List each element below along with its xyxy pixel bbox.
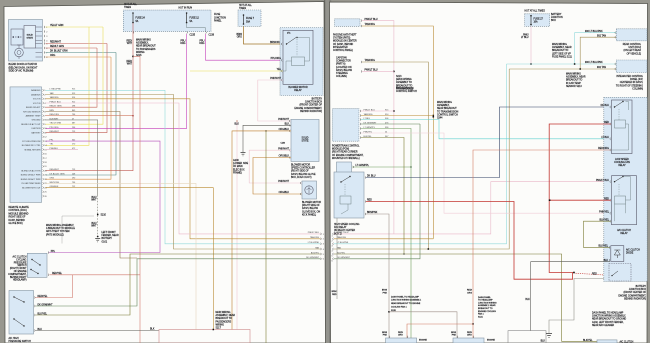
wire PNK/LT BLU fuse drop [530,26,532,64]
node junction tan row4 [428,248,430,250]
wire ORG vertical [46,57,112,179]
svg-text:PNK: PNK [452,335,457,337]
svg-text:ASSEMBLY,: ASSEMBLY, [136,42,149,45]
wire LT BLU/PNK right row [334,64,507,244]
svg-text:CYCLING PRES SW: CYCLING PRES SW [22,141,41,143]
svg-text:COOLING FAN 1: COOLING FAN 1 [391,306,408,309]
svg-text:BATTERY: BATTERY [312,98,323,101]
svg-text:WIRING: WIRING [136,52,145,54]
svg-text:BLOWER MOTOR: BLOWER MOTOR [302,202,321,204]
svg-text:ENGINE: ENGINE [487,340,495,342]
svg-text:ELEC BOX: ELEC BOX [233,169,245,171]
pcm relay contact [612,271,618,276]
wire stub below hs relay [336,218,338,299]
svg-text:LEFT SIDE OF I/P: LEFT SIDE OF I/P [552,53,571,55]
svg-text:TO RIGHT OF STEERING: TO RIGHT OF STEERING [616,85,643,87]
wire BRN/ORG from fuse 7 [244,26,284,44]
svg-text:CONTROL SWITCH: CONTROL SWITCH [396,91,417,93]
svg-text:PNK/LT BLU: PNK/LT BLU [596,180,609,182]
wire PPL/ORG to blower relay [206,34,284,60]
svg-text:BRN/: BRN/ [382,332,387,334]
svg-text:COLUMN): COLUMN) [336,76,347,78]
svg-text:DASH PANEL: DASH PANEL [478,296,492,299]
svg-text:AMBIENT TEMP: AMBIENT TEMP [26,114,42,117]
hs relay coil [340,196,351,204]
svg-text:BEHIND RIGHT: BEHIND RIGHT [10,277,27,279]
wire TAN capstan vertical [362,62,428,249]
node junction S213 tan [579,68,581,70]
wire PNK/LT BLU row4 [46,103,321,234]
svg-text:FUSE 27: FUSE 27 [534,18,544,20]
svg-text:DASH, BELOW GLOVE: DASH, BELOW GLOVE [291,173,316,176]
svg-text:ORG: ORG [237,37,242,39]
svg-text:YEL/LT GRN: YEL/LT GRN [50,123,62,125]
wire TAN right row [334,69,509,249]
svg-text:BLEND DR ACT PWR: BLEND DR ACT PWR [21,174,41,177]
svg-text:ORG: ORG [398,335,403,337]
svg-text:BLEND DR ACT PWR: BLEND DR ACT PWR [21,178,41,181]
wire RED/ORG branch fan1 [407,324,473,338]
wire BRN/PNK to fans [366,214,389,338]
blower motor relay dashed box [280,28,323,96]
svg-text:IN CAR TEMP: IN CAR TEMP [566,82,581,85]
fuse 24 [132,13,134,24]
svg-text:BRN/: BRN/ [332,291,337,293]
svg-text:BLK: BLK [604,260,609,262]
svg-text:TO TRANSMISSION: TO TRANSMISSION [437,110,459,113]
wire PNK/WHT drop to bottom connector [236,121,238,330]
wire BLK/WHT ground row8 [46,120,98,195]
wire DK BLU/LT GRN vertical [46,53,117,176]
node junction blk/yel row5 [403,253,404,254]
svg-text:HOT AT ALL: HOT AT ALL [124,3,138,6]
svg-text:JUNCTION: JUNCTION [551,17,563,19]
blower motor relay body [283,30,313,84]
ground G101 symbol [95,239,100,242]
svg-text:BLK: BLK [150,329,155,331]
wire LT BLU/PNK row1 [46,90,321,244]
wire BLK from diode [531,262,610,331]
svg-text:BRN/: BRN/ [451,332,456,334]
svg-text:BLOWER MTR OUT: BLOWER MTR OUT [22,187,41,189]
diode symbol [614,250,620,255]
svg-text:RELAY: RELAY [618,164,626,167]
svg-text:BLK/YEL: BLK/YEL [599,246,609,248]
svg-text:LEFT FRONT: LEFT FRONT [102,232,117,234]
svg-text:C240: C240 [280,143,285,145]
svg-text:DK BLU: DK BLU [601,105,610,107]
svg-text:S213: S213 [396,76,402,78]
relay switch contact [287,38,297,45]
svg-text:248: 248 [72,173,75,175]
svg-text:VOLT IN: VOLT IN [33,99,41,101]
svg-text:NEAR BREAKOUT: NEAR BREAKOUT [437,107,457,110]
svg-text:PNK: PNK [383,293,388,295]
svg-text:(RIGHT SIDE OF: (RIGHT SIDE OF [291,171,309,173]
svg-text:RIGHT SIDE OF: RIGHT SIDE OF [9,217,27,219]
wire LT GRN/PPL branch connector [352,166,411,168]
svg-text:900 LT BLU/PNK: 900 LT BLU/PNK [585,62,603,64]
node junction red/org row7 [132,115,133,116]
svg-text:BOX 1): BOX 1) [334,233,342,235]
wire ORG from actuator [46,56,112,58]
wire DK GRN/WHT from hp switch [36,259,321,306]
svg-text:WHT: WHT [91,226,97,228]
svg-text:KICK PANEL): KICK PANEL) [302,213,316,216]
wire RED/WHT vertical [46,44,108,133]
svg-text:PASSIVE ANTI-THEFT: PASSIVE ANTI-THEFT [333,34,357,37]
wire PNK/LT BLU vertical right page [362,21,394,234]
wire BRN/PNK branch fan2 [389,312,457,338]
svg-text:STATE: STATE [301,140,309,143]
svg-text:A/C CLUTCH: A/C CLUTCH [617,229,631,232]
wire TAN/ORG vertical right page [362,26,433,239]
svg-text:IN CAR TEMP SENS: IN CAR TEMP SENS [22,182,41,185]
wire PNK/YEL pcm to clutch relay [361,133,612,213]
svg-text:DASH PANEL TO HEADLAMP: DASH PANEL TO HEADLAMP [391,295,420,298]
svg-text:ANTI-THEFT SYSTEM: ANTI-THEFT SYSTEM [46,230,70,233]
wire YEL/LT GRN vertical b [46,27,104,124]
wire ORG/BLK row24 [46,188,214,330]
wire RED dashed to pcm relay [576,273,605,275]
svg-text:BLK: BLK [525,299,530,301]
svg-text:STEERING: STEERING [336,73,348,75]
svg-text:PRESSURE: PRESSURE [14,262,27,264]
svg-text:BREAKOUT TO: BREAKOUT TO [396,84,413,87]
clutch relay contact [615,177,624,182]
svg-text:(RIGHT FRONT: (RIGHT FRONT [10,268,27,270]
svg-text:MODULE (BEHIND: MODULE (BEHIND [9,213,29,215]
bottom connector box [159,330,250,343]
svg-text:296: 296 [72,127,75,129]
svg-text:290: 290 [72,178,75,180]
svg-text:CYCLING: CYCLING [16,259,27,261]
svg-text:PANEL: PANEL [214,20,222,23]
svg-text:A/C HIGH: A/C HIGH [9,337,20,340]
svg-text:STATE: STATE [27,36,34,39]
fuse12 internal link [187,23,206,31]
blower motor symbol [305,186,313,194]
svg-text:C236: C236 [209,34,215,36]
node junction org/blk [265,130,266,131]
wire RED/ORG fan2 drop [472,324,474,338]
node junction S120 [388,311,390,313]
wire YEL/LT GRN vertical a [46,27,90,145]
svg-text:PNK/WHT: PNK/WHT [278,119,289,121]
PATS module box [335,19,361,27]
svg-text:RED/YEL: RED/YEL [52,273,63,275]
svg-text:TO HEADLAMP: TO HEADLAMP [478,299,493,302]
svg-text:RED/: RED/ [467,332,472,334]
wire DK GRN/WHT pcm link [361,123,420,125]
svg-text:ORG: ORG [50,55,55,57]
wire BLK/YEL pcm down [361,138,404,255]
svg-text:BLOWER MOTOR: BLOWER MOTOR [291,165,310,167]
svg-text:MAIN WIRING: MAIN WIRING [437,101,452,104]
svg-text:687: 687 [72,123,75,125]
node junction S216 [132,56,134,58]
svg-text:G200: G200 [233,160,239,162]
wire TAN/ORG pcm link [361,115,433,117]
hs relay contact [341,177,350,183]
svg-text:BREAKOUT TO: BREAKOUT TO [216,317,233,320]
right page [330,2,648,343]
node junction pnk S213 [393,71,395,73]
svg-text:TIMES: TIMES [239,8,247,10]
ground G200 symbol [241,153,246,156]
ac clutch diode box [611,246,624,262]
remote climate control module box [10,87,42,202]
module pins [42,89,45,91]
ac high pressure switch box [9,291,34,335]
wire RED/ORG row7 stub [46,115,134,117]
svg-text:ASSEMBLY, NEAR: ASSEMBLY, NEAR [552,46,572,49]
hp switch contact 1 [14,297,24,302]
svg-text:LT BLU: LT BLU [521,37,529,39]
svg-text:900 LT BLU/PNK: 900 LT BLU/PNK [585,31,603,33]
svg-text:DATA BUS: DATA BUS [31,93,41,96]
svg-text:BEHIND RADIATOR): BEHIND RADIATOR) [300,110,322,113]
wire BLK/YEL clutch loop [584,221,611,247]
svg-text:(PATS MODULE): (PATS MODULE) [46,233,64,236]
wire PNK/LT BLU right row [334,182,612,234]
svg-text:RED/WHT: RED/WHT [50,42,61,44]
wire RED hs relay [366,202,573,280]
svg-text:(LOCATED ON: (LOCATED ON [336,66,352,69]
node junction pnk/wht [236,120,237,121]
ground G102 symbol [546,334,552,338]
ac cycling pressure switch box [27,253,47,277]
svg-text:BOX: BOX [551,20,556,22]
svg-text:(PART A): (PART A) [336,63,346,66]
svg-text:ORG: ORG [467,293,472,295]
svg-text:JUNCTION BOX: JUNCTION BOX [305,102,323,104]
svg-text:BLEND DOOR ACTUATOR: BLEND DOOR ACTUATOR [9,63,38,66]
svg-text:RED/: RED/ [398,332,403,334]
svg-text:FUSE PANEL S211: FUSE PANEL S211 [552,55,573,58]
svg-text:LT GRN/PPL: LT GRN/PPL [356,165,370,167]
wire PNK/WHT relay to controller [258,80,291,121]
svg-text:RED/WHT: RED/WHT [50,169,60,171]
svg-text:10A: 10A [534,21,539,24]
svg-text:BLK/YEL: BLK/YEL [311,252,320,254]
svg-text:ASSEMBLY, NEAR: ASSEMBLY, NEAR [216,314,236,317]
svg-text:SIGNAL RETURN: SIGNAL RETURN [24,148,41,151]
wire WHT/ORG row23 [46,183,197,329]
svg-text:ENGINE COMPARTMENT,: ENGINE COMPARTMENT, [618,294,646,297]
svg-text:JUNCTION: JUNCTION [214,17,226,19]
svg-text:ORG: ORG [180,43,185,45]
svg-text:MAIN WIRING: MAIN WIRING [216,311,231,314]
wire PNK/WHT to blower motor [249,150,302,183]
svg-text:BLOWER MOTOR: BLOWER MOTOR [288,87,308,89]
svg-text:ENGINE COMPARTMENT,: ENGINE COMPARTMENT, [294,107,322,110]
svg-text:GROUND: GROUND [32,120,41,122]
fuse 27 [530,15,532,25]
svg-text:ENGINE COOLING: ENGINE COOLING [478,311,496,313]
svg-text:RED/LT GRN: RED/LT GRN [50,46,64,48]
high speed cooling fan relay box [334,172,364,218]
wire BLK controller ground [243,125,291,152]
svg-text:HOT IN RUN: HOT IN RUN [179,8,193,10]
svg-text:JUNCTION WIRING ASSEMBLY,: JUNCTION WIRING ASSEMBLY, [391,299,422,302]
PCM connector 2 [337,162,352,176]
actuator pin stubs from solid state block [36,27,43,57]
svg-text:WHT: WHT [91,200,97,202]
svg-text:NEAR BREAKOUT: NEAR BREAKOUT [136,45,156,48]
svg-text:JUNCTION WIRING ASSEMBLY,: JUNCTION WIRING ASSEMBLY, [592,315,626,318]
svg-text:BLEND DR ACT RTN: BLEND DR ACT RTN [21,169,41,172]
svg-text:NEAR BREAKOUT TO GROUND: NEAR BREAKOUT TO GROUND [592,318,627,321]
svg-text:BATTERY: BATTERY [31,131,41,134]
wire DK GRN/WHT right row [334,124,420,259]
wire YEL/LT GRN from actuator [46,26,104,28]
svg-text:BLK: BLK [235,124,240,126]
svg-text:COLUMN): COLUMN) [632,88,643,90]
svg-text:TAN/ORG: TAN/ORG [310,236,319,239]
svg-text:ORG: ORG [50,178,55,180]
svg-text:30A: 30A [246,20,251,23]
svg-text:PPL/ORG: PPL/ORG [271,58,282,60]
node junction S217 L [213,329,215,331]
svg-text:LT BLU/PNK: LT BLU/PNK [308,242,320,244]
svg-text:TRANSMISSION: TRANSMISSION [396,87,414,90]
svg-text:BREAKOUT TO: BREAKOUT TO [566,79,583,82]
svg-text:(ON LEFT REAR: (ON LEFT REAR [624,49,642,52]
svg-text:BLEND DR ACT: BLEND DR ACT [26,106,41,109]
svg-text:YEL: YEL [277,69,282,71]
svg-text:S216: S216 [136,55,142,57]
wire TAN/ORG right row [334,238,433,240]
svg-text:NEAR BREAKOUT TO ENGINE: NEAR BREAKOUT TO ENGINE [391,302,421,305]
bottom connector box right [508,331,546,343]
svg-text:RED: RED [592,273,597,275]
svg-text:(MAIN WIRING: (MAIN WIRING [396,78,412,81]
svg-text:ORG/BLK: ORG/BLK [279,192,290,194]
wire PNK/BLK row15 stub [46,149,79,151]
svg-text:MODULE (PCM): MODULE (PCM) [332,149,349,151]
wire BLK/YEL from hp switch [36,254,321,315]
fuse box right page [525,14,550,26]
wire DK BLU/LT GRN from actuator [46,52,117,54]
svg-text:FUSE 12: FUSE 12 [190,18,200,20]
svg-text:UNIT (RCU): UNIT (RCU) [629,47,642,49]
svg-text:DIODE: DIODE [626,253,634,255]
svg-text:5A: 5A [136,20,139,23]
svg-text:ASSEMBLY TO: ASSEMBLY TO [396,81,412,84]
svg-text:713: 713 [72,131,75,133]
svg-text:FUSE 24: FUSE 24 [136,18,146,20]
svg-text:RELAY: RELAY [620,232,628,235]
node junction pnk pcm [393,110,395,112]
svg-text:FAN 1: FAN 1 [478,313,485,316]
fuse 12 [186,13,188,24]
wire RED clutch relay link [550,199,611,201]
svg-text:INTEGRATED CONTROL: INTEGRATED CONTROL [616,75,643,78]
actuator feedback pot box [11,29,23,45]
svg-text:(RIGHT SIDE OF: (RIGHT SIDE OF [302,205,320,207]
svg-text:JUNCTION WIRING: JUNCTION WIRING [478,302,497,304]
svg-text:PASSENGERS: PASSENGERS [216,320,232,323]
wire RED/LT GRN from actuator [46,47,98,49]
svg-text:BATTERY: BATTERY [102,237,113,240]
wire LT BLU/PNK top run [507,63,617,65]
node junction tan/org pcm [433,115,435,117]
svg-text:HOT AT ALL TIMES: HOT AT ALL TIMES [525,10,546,13]
svg-text:BOX, IN A/C DUCT): BOX, IN A/C DUCT) [291,176,312,179]
svg-text:DK BLU/LT GRN: DK BLU/LT GRN [50,51,68,53]
fuse box hot-at-all-times 2 [238,10,261,26]
svg-text:298: 298 [72,106,75,108]
svg-text:WHT: WHT [127,64,133,66]
svg-text:SIDE OF A/C PLENUM): SIDE OF A/C PLENUM) [9,70,34,73]
svg-text:TAN: TAN [315,246,319,249]
engine cooling fan 2 box [453,338,484,343]
wire LT BLU pcm to ls relay [361,120,612,139]
svg-text:FUSE 7: FUSE 7 [246,18,255,20]
wire RED/YEL supply [133,56,140,343]
svg-text:G102, LEFT FRONT FENDER,: G102, LEFT FRONT FENDER, [592,322,624,324]
svg-text:INTEGRATED: INTEGRATED [333,46,348,49]
wire PPL row13 [46,141,161,252]
svg-text:ENGINE: ENGINE [419,340,427,342]
left page [4,2,326,343]
svg-text:MOUNTED AT FIREWALL): MOUNTED AT FIREWALL) [332,157,360,160]
wire RED/WHT from fuse 24 [46,23,134,171]
svg-text:PNK/WHT: PNK/WHT [270,78,281,80]
svg-text:SENSOR S213: SENSOR S213 [566,86,582,88]
svg-text:WIRING: WIRING [216,324,225,326]
svg-text:DASH, BELOW: DASH, BELOW [302,207,319,210]
node junction lt grn/ppl [410,166,411,167]
svg-text:MAIN WIRING: MAIN WIRING [552,43,567,46]
svg-text:OF ENGINE COMPARTMENT,: OF ENGINE COMPARTMENT, [332,154,364,157]
rear control unit box [616,29,647,41]
svg-text:PNK/LT BLU: PNK/LT BLU [308,232,320,234]
node junction S214 [574,63,576,65]
svg-text:FRAME): FRAME) [233,171,242,174]
svg-text:GLOVE BOX): GLOVE BOX) [9,223,23,225]
svg-text:FAN RELAY: FAN RELAY [334,226,347,229]
wire RED ls relay [549,124,611,273]
wire LT BLU/PNK rcu riser [575,33,617,64]
svg-text:BATTERY: BATTERY [636,285,647,288]
svg-text:(LOWER SIDE: (LOWER SIDE [233,163,249,165]
svg-text:BLEND DR ACT OUT: BLEND DR ACT OUT [21,123,41,126]
svg-text:S210: S210 [101,215,107,217]
svg-text:902 TAN: 902 TAN [597,34,606,37]
wire RED/LT GRN vertical [46,48,98,107]
svg-text:YEL/LT GRN: YEL/LT GRN [50,25,64,27]
engine cooling fan 1 box [386,338,417,343]
cycling switch contact [32,260,40,266]
node junction tan/org S244 [433,116,435,118]
fuse 7 [243,15,245,25]
svg-text:MAIN WIRING: MAIN WIRING [136,39,151,42]
svg-text:FENDER, NEAR: FENDER, NEAR [102,234,119,237]
svg-text:902 TAN: 902 TAN [597,66,606,69]
integrated control panel box [616,60,647,73]
svg-text:ASSEMBLY, NEAR: ASSEMBLY, NEAR [478,304,496,307]
svg-text:BRN/: BRN/ [382,290,388,292]
wire LT GRN/PPL pcm [361,129,411,343]
svg-text:DASH, BEHIND: DASH, BEHIND [9,219,26,222]
wire TAN top run [509,68,616,70]
svg-text:CONTROL PANEL): CONTROL PANEL) [333,49,353,52]
svg-text:BREAKOUT TO: BREAKOUT TO [552,49,569,52]
svg-text:TIMES: TIMES [124,7,132,9]
svg-text:MAIN WIRING ASSEMBLY,: MAIN WIRING ASSEMBLY, [46,224,74,227]
